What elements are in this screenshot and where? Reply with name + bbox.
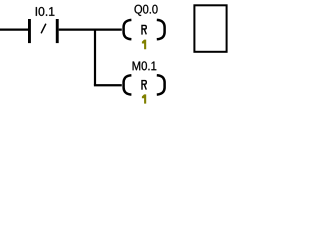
contact I0.1 right bar <box>56 19 59 43</box>
wire: left rail to contact I0.1 <box>0 29 29 31</box>
coil M0.1 left paren <box>124 75 132 94</box>
label I0.1 <box>36 7 55 16</box>
wire: branch vertical drop <box>94 30 96 86</box>
coil Q0.0 value 1 <box>142 40 146 50</box>
wire: branch horizontal to coil M0.1 <box>94 84 122 86</box>
box (empty instruction box, next network) <box>194 5 226 52</box>
coil M0.1 value 1 <box>142 94 146 103</box>
coil M0.1 letter R <box>142 81 146 90</box>
coil M0.1 right paren <box>157 75 165 94</box>
contact I0.1 slash <box>41 24 46 34</box>
wire: contact to coil Q0.0 <box>59 29 122 31</box>
coil Q0.0 right paren <box>157 20 165 39</box>
label Q0.0 <box>134 5 157 16</box>
coil Q0.0 letter R <box>142 25 146 34</box>
label M0.1 <box>133 61 157 70</box>
coil Q0.0 left paren <box>124 20 132 39</box>
contact I0.1 (normally closed) left bar <box>28 19 31 43</box>
